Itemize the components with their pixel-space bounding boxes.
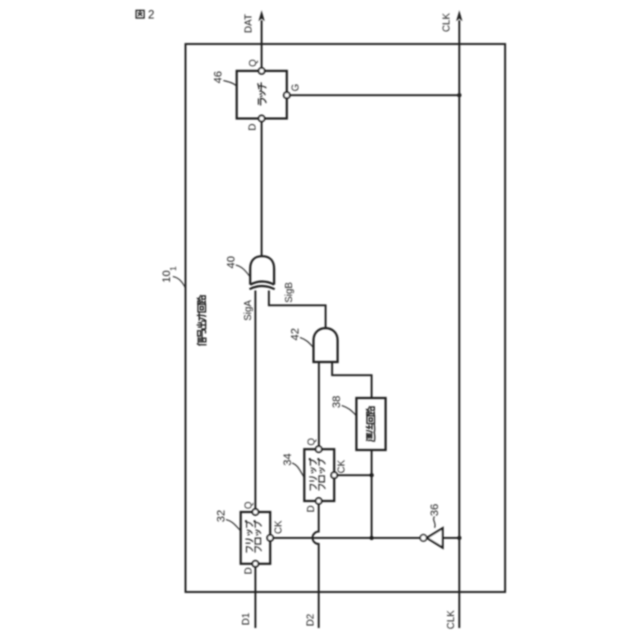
outer box 信号出力回路 10 xyxy=(186,44,506,592)
svg-text:D1: D1 xyxy=(241,613,252,626)
FF34 text フリップ / フロップ (rotated two lines) xyxy=(309,459,325,491)
figure title 図 2 xyxy=(136,10,154,22)
wire FF34 CK to delay line xyxy=(337,474,371,476)
svg-text:Q: Q xyxy=(248,59,259,67)
wire FF34 D to D2 (with hop over CK rail) xyxy=(313,504,319,628)
latch text ラッチ (rotated) xyxy=(258,83,266,105)
FF32 pin CK circle xyxy=(267,535,273,541)
wire SigA (XOR left input down to FF32 Q) xyxy=(254,291,256,510)
svg-text:Q: Q xyxy=(244,501,255,509)
latch pin Q circle xyxy=(259,68,265,74)
leader line 42 xyxy=(300,338,313,348)
FF34 pin D circle xyxy=(316,498,322,504)
FF34 pin CK circle xyxy=(331,472,337,478)
svg-text:36: 36 xyxy=(429,504,441,516)
FF32 text フリップ / フロップ (rotated two lines) xyxy=(245,521,261,553)
svg-text:CLK: CLK xyxy=(441,13,452,33)
FF32 pin D circle xyxy=(252,561,258,567)
svg-text:CK: CK xyxy=(336,459,347,473)
wire SigB (XOR right input to AND output) xyxy=(269,291,326,329)
FF34 pin Q circle xyxy=(316,446,322,452)
delay text 遅延回路 (two rotated lines) xyxy=(366,407,375,442)
svg-text:10: 10 xyxy=(161,270,173,282)
svg-text:SigB: SigB xyxy=(284,282,295,303)
junction delay/FF34 CK xyxy=(369,473,373,477)
wire inverter input to CLK line xyxy=(443,537,460,539)
svg-text:DAT: DAT xyxy=(244,14,255,33)
leader line 36 xyxy=(434,517,436,528)
arrowhead DAT xyxy=(258,10,264,21)
leader line 34 xyxy=(292,463,304,477)
svg-text:CLK: CLK xyxy=(446,610,457,630)
svg-text:38: 38 xyxy=(331,396,343,408)
svg-text:CK: CK xyxy=(274,520,285,534)
latch pin D circle xyxy=(259,116,265,122)
svg-text:D: D xyxy=(247,124,258,131)
leader line 32 xyxy=(226,520,240,531)
svg-text:D: D xyxy=(244,567,255,574)
svg-text:G: G xyxy=(291,84,302,92)
wire FF32 D to D1 xyxy=(254,567,256,628)
flip-flop 32 box xyxy=(241,512,271,564)
FF32 pin Q circle xyxy=(252,509,258,515)
junction inverter/CLK xyxy=(457,536,461,540)
wire latch G to CLK line xyxy=(290,94,460,96)
junction delay/FF32 CK rail xyxy=(369,536,373,540)
wire latch D to XOR output xyxy=(261,122,263,257)
leader line 46 xyxy=(223,81,236,86)
wire AND left input to FF34 Q xyxy=(318,362,320,446)
inverter 36 xyxy=(420,528,442,547)
svg-text:1: 1 xyxy=(168,266,178,271)
arrowhead CLK top xyxy=(456,10,462,21)
svg-text:34: 34 xyxy=(282,453,294,465)
svg-text:40: 40 xyxy=(225,256,237,268)
flip-flop 34 box xyxy=(304,449,334,501)
wire DAT output (latch Q to top arrow) xyxy=(261,20,263,74)
svg-text:D2: D2 xyxy=(305,614,316,627)
wire FF32 CK rail to inverter output xyxy=(273,537,420,539)
wire AND right input to delay input xyxy=(332,362,372,398)
leader line 40 xyxy=(236,265,250,276)
svg-text:2: 2 xyxy=(148,10,154,22)
svg-text:D: D xyxy=(306,505,317,512)
wire delay output down to FF32 CK rail xyxy=(371,450,373,538)
latch 46 box xyxy=(237,71,287,119)
AND gate 42 xyxy=(314,328,338,362)
XOR gate 40 xyxy=(250,256,275,289)
delay box 38 遅延回路 xyxy=(356,398,385,450)
junction G/CLK xyxy=(457,93,461,97)
svg-text:32: 32 xyxy=(216,510,228,522)
svg-text:42: 42 xyxy=(289,328,301,340)
svg-text:SigA: SigA xyxy=(243,300,254,321)
svg-text:Q: Q xyxy=(307,438,318,446)
leader line 38 xyxy=(342,406,357,416)
wire CLK input (bottom to top arrow) xyxy=(458,20,460,628)
label 10 with subscript 1 xyxy=(161,266,178,283)
block label 信号出力回路 (rotated) xyxy=(197,295,206,345)
svg-text:46: 46 xyxy=(212,71,224,83)
latch pin G circle xyxy=(284,92,290,98)
leader line for 10 xyxy=(173,277,186,288)
